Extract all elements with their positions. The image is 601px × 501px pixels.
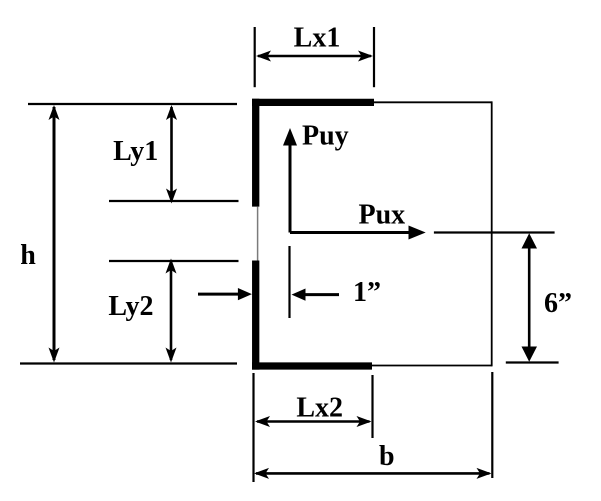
thin bottom edge <box>372 365 492 367</box>
Lx1 left tick <box>254 27 256 87</box>
lower left wall thick bar <box>252 261 259 370</box>
h top extension line <box>28 103 237 105</box>
Pux label <box>359 199 406 230</box>
Ly2 label <box>108 291 153 322</box>
Ly1 bottom tick line <box>109 200 239 202</box>
bottom flange thick bar <box>252 362 372 369</box>
gray joint line <box>257 207 259 261</box>
svg-text:Pux: Pux <box>359 199 406 230</box>
Lx2 label <box>296 392 343 423</box>
1 inch tick line <box>288 246 290 318</box>
svg-text:Lx1: Lx1 <box>294 23 341 54</box>
6 inch dimension arrow <box>522 233 538 362</box>
Ly1 label <box>113 136 158 167</box>
svg-text:Ly1: Ly1 <box>113 136 158 167</box>
upper left wall thick bar <box>252 99 259 207</box>
1 inch left-pointing arrow <box>292 289 340 301</box>
6 inch label <box>544 288 572 319</box>
svg-text:6”: 6” <box>544 288 572 319</box>
h label <box>20 240 36 271</box>
6 inch top tick line <box>434 231 555 233</box>
h bottom extension line <box>20 362 237 364</box>
Lx2 dimension arrow <box>255 416 372 427</box>
Lx1 label <box>294 23 341 54</box>
arrow pointing at wall <box>198 288 252 300</box>
1 inch label <box>353 277 381 308</box>
h dimension arrow <box>49 105 60 363</box>
Puy axis arrow <box>283 128 297 233</box>
thin right edge <box>491 101 493 366</box>
top flange thick bar <box>252 99 374 106</box>
Ly2 dimension arrow <box>166 259 177 363</box>
Pux axis arrow <box>290 226 426 240</box>
Ly1 dimension arrow <box>166 105 177 204</box>
svg-text:h: h <box>20 240 36 271</box>
Lx2 right tick <box>371 375 373 438</box>
Lx1 right tick <box>373 27 375 87</box>
svg-text:1”: 1” <box>353 277 381 308</box>
svg-text:Puy: Puy <box>302 121 349 152</box>
b left tick <box>252 373 254 482</box>
svg-text:Ly2: Ly2 <box>108 291 153 322</box>
b right tick <box>491 372 493 478</box>
thin top edge <box>374 101 492 103</box>
svg-text:Lx2: Lx2 <box>296 392 343 423</box>
b dimension arrow <box>254 468 492 479</box>
Ly2 top tick line <box>109 260 239 262</box>
Lx1 dimension arrow <box>256 51 373 62</box>
b label <box>379 441 395 472</box>
6 inch bottom tick line <box>506 361 559 363</box>
svg-text:b: b <box>379 441 395 472</box>
Puy label <box>302 121 349 152</box>
